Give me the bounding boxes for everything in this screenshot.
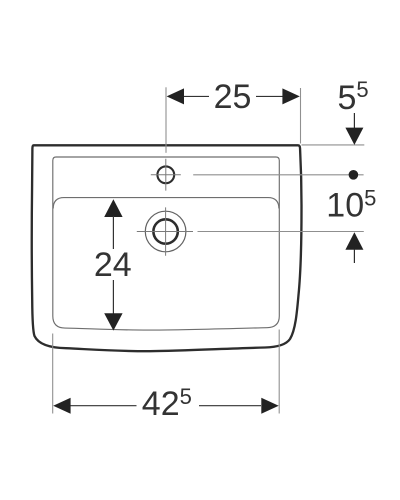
dim 42.5: extension line right (278, 330, 280, 414)
top edge extension line right (302, 144, 365, 146)
dot marker at tap-hole level (349, 170, 359, 180)
tap hole circle U (157, 166, 174, 183)
tap hole crosshair (151, 159, 181, 191)
outer basin outline (32, 145, 302, 351)
svg-text:25: 25 (214, 78, 252, 116)
dim 24: arrow down to rim bottom (112, 280, 114, 314)
dim 42.5: left arrowhead (53, 398, 70, 414)
dim 24: arrow up to bowl top (104, 199, 122, 217)
deck / bowl top edge line (53, 198, 279, 209)
overflow crosshair (137, 207, 193, 255)
dim 25: left arrowhead (167, 88, 184, 104)
dim 10.5: arrow up to overflow level (345, 232, 363, 250)
dim 25: extension line right (at basin edge) (300, 88, 302, 144)
rim (basin opening) line (53, 157, 279, 330)
dim 42.5: dimension line (70, 405, 261, 407)
dim 42.5: right arrowhead (261, 398, 278, 414)
reference line overflow to right (198, 231, 364, 233)
svg-text:24: 24 (94, 246, 132, 284)
dim 25: dimension line (183, 95, 284, 97)
dim 25: extension line left (at tap centre) (165, 87, 167, 153)
overflow hole inner circle (153, 219, 177, 243)
dim 5.5: arrow down to top edge (353, 113, 355, 129)
reference line tap hole to right dot (193, 174, 363, 176)
dim 25: right arrowhead (282, 88, 299, 104)
overflow hole outer circle (145, 211, 186, 252)
dim 42.5: extension line left (52, 334, 54, 414)
